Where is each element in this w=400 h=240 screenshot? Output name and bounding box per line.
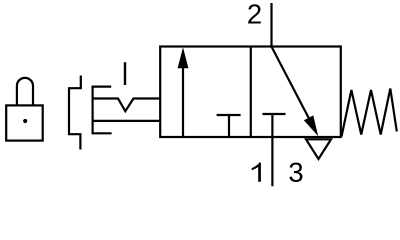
blocked port T (position a): [228, 115, 230, 137]
diagonal flow line 2 to 3 (position b): [272, 47, 310, 120]
padlock keyhole dot: [23, 119, 27, 123]
push button cap: [93, 87, 112, 134]
padlock shackle: [17, 78, 33, 106]
port 2 stub: [270, 3, 272, 47]
diagonal flow arrowhead (position b): [304, 115, 318, 136]
label port 3: [289, 163, 302, 182]
blocked port T cap (position a): [217, 114, 241, 116]
label port 1: [252, 163, 261, 182]
blocked port T cap (position b): [263, 113, 286, 115]
flow arrow head (position a): [178, 47, 189, 68]
detent bracket: [69, 76, 81, 150]
padlock body: [6, 105, 43, 140]
position divider: [250, 47, 252, 138]
plunger bottom rail: [93, 120, 161, 122]
blocked port T vertical + port 1 stub: [271, 114, 273, 186]
valve body frame: [160, 47, 341, 138]
detent pin: [124, 62, 126, 85]
label port 2: [248, 4, 261, 23]
exhaust triangle port 3: [306, 139, 331, 159]
plunger top rail with detent notch: [93, 99, 161, 112]
return spring: [342, 89, 397, 137]
flow arrow shaft (position a): [182, 62, 184, 137]
